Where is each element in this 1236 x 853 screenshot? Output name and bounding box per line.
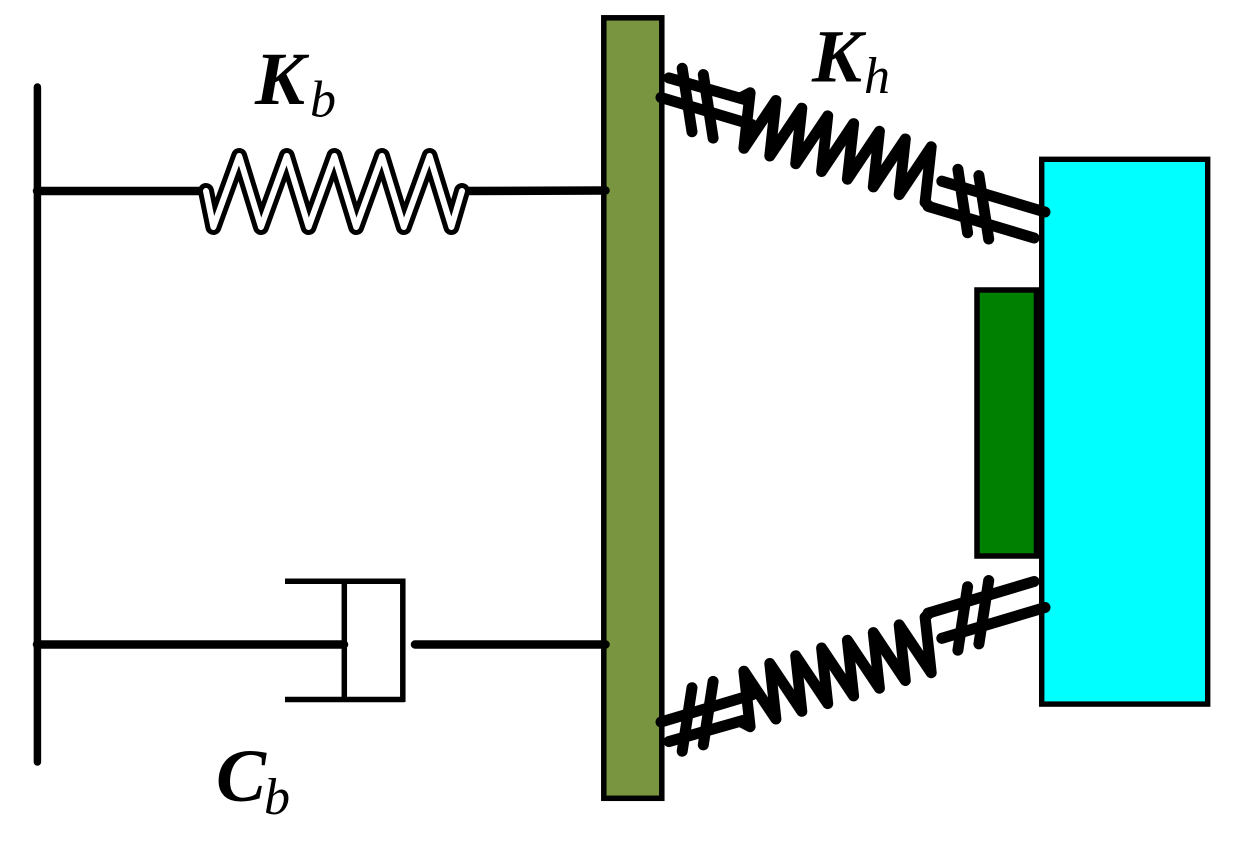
spring Kb: [206, 156, 462, 227]
svg-text:b: b: [264, 769, 290, 826]
block (dark green rectangle): [977, 290, 1037, 556]
svg-text:K: K: [254, 38, 310, 121]
plate (olive vertical bar): [604, 18, 662, 799]
svg-text:C: C: [216, 735, 267, 818]
spring Kh (bottom diagonal): [661, 581, 1045, 752]
wire (top, spring Kb to plate): [460, 186, 606, 195]
damper Cb (piston): [342, 579, 348, 702]
svg-text:b: b: [310, 72, 336, 129]
junction dot (bottom wire at plate): [601, 640, 610, 649]
junction dot (top wire at plate): [601, 186, 610, 195]
wire (bottom, damper to plate): [415, 640, 606, 649]
damper Cb (cylinder): [285, 579, 405, 703]
svg-text:K: K: [811, 16, 867, 99]
wire (bottom, wall to damper piston rod): [37, 640, 344, 649]
wire (top, wall to spring Kb): [37, 187, 208, 196]
spring Kh (top diagonal): [661, 68, 1045, 239]
wall line (left support): [34, 87, 42, 762]
svg-text:h: h: [864, 48, 890, 105]
mass (cyan rectangle): [1042, 159, 1208, 704]
